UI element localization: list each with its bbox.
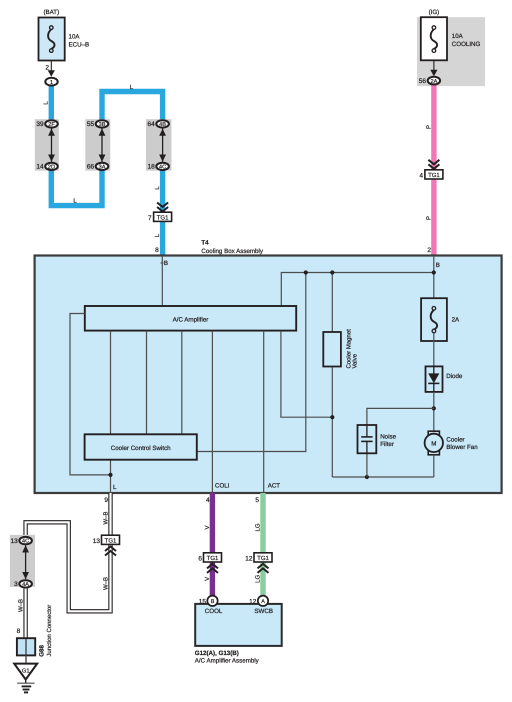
wire W-B 4A to G88 (inner white): [25, 589, 27, 641]
solenoid Cooler Magnet Valve: [323, 329, 358, 369]
connector 2A: [419, 77, 440, 86]
svg-text:A/C Amplifier Assembly: A/C Amplifier Assembly: [195, 658, 260, 665]
svg-text:14: 14: [36, 164, 44, 171]
svg-text:TG1: TG1: [207, 555, 219, 562]
svg-text:4: 4: [419, 173, 423, 180]
svg-text:66: 66: [87, 164, 95, 171]
box G12/G13 A/C Amplifier Assembly: [195, 604, 282, 646]
diode D1: [426, 366, 463, 392]
connector pair 2F/2D: [35, 119, 59, 170]
wire W-B pin 9 to connector 4C (inner white): [26, 493, 111, 611]
wire valve bottom vertical: [331, 367, 333, 477]
svg-text:LG: LG: [255, 574, 262, 582]
pin A connector: [249, 596, 268, 606]
svg-text:4C: 4C: [22, 539, 29, 545]
svg-text:B: B: [211, 599, 215, 605]
svg-text:1: 1: [50, 80, 53, 86]
wire V (violet) COLI to pin B: [210, 493, 215, 601]
wire W-B 4A to G88 (outer black): [23, 589, 27, 641]
wire B vertical to 2A fuse: [433, 256, 435, 307]
svg-text:2: 2: [427, 247, 431, 254]
wire amplifier to switch 3: [181, 331, 183, 435]
svg-text:39: 39: [36, 121, 44, 128]
svg-text:5: 5: [255, 497, 259, 504]
wire noise filter bottom branch: [366, 453, 368, 477]
connector pair 4B/4C: [146, 119, 171, 170]
wire amplifier to ACT pin: [263, 331, 265, 493]
svg-text:9: 9: [104, 497, 108, 504]
pin B connector: [199, 596, 218, 606]
wire switch to pin L: [110, 460, 112, 493]
connector 7 TG1: [148, 203, 172, 223]
node junction dot: [330, 415, 334, 419]
junction G88 box: [17, 638, 35, 663]
capacitor Noise Filter: [358, 425, 397, 453]
wire L (blue) 4C to T4 pin 8: [160, 165, 165, 256]
wire L (blue) 2D to 3A: [51, 165, 102, 205]
wire L (blue) from connector 1 to 2F: [49, 84, 54, 124]
svg-text:3A: 3A: [99, 165, 106, 171]
svg-text:SWCB: SWCB: [254, 608, 273, 615]
connector 13 TG1: [93, 535, 120, 555]
connector 6 TG1: [198, 553, 221, 573]
svg-text:A: A: [261, 599, 265, 605]
wire L (blue) 3B to 4B: [102, 92, 163, 125]
wire amplifier to switch 1: [110, 331, 112, 435]
connector pair 4C/4A: [10, 535, 35, 588]
svg-text:2A: 2A: [430, 79, 437, 85]
svg-text:8: 8: [17, 628, 21, 635]
fuse 10A ECU-B (BAT): [39, 9, 90, 61]
svg-text:6: 6: [198, 556, 202, 563]
svg-text:Cooling Box Assembly: Cooling Box Assembly: [201, 248, 263, 255]
wire amplifier left loop to pin L: [70, 314, 111, 475]
svg-text:8: 8: [155, 247, 159, 254]
connector 1: [45, 78, 57, 86]
svg-text:TG1: TG1: [105, 538, 117, 545]
ground G1: [14, 664, 37, 693]
node junction dot: [330, 270, 334, 274]
svg-text:Junction Connector: Junction Connector: [46, 605, 53, 657]
svg-text:55: 55: [87, 121, 95, 128]
svg-text:M: M: [431, 440, 436, 447]
fuse 10A COOLING (IG): [417, 9, 485, 86]
svg-text:12: 12: [249, 598, 257, 605]
svg-text:2F: 2F: [48, 122, 55, 128]
svg-text:Cooler: Cooler: [446, 436, 464, 443]
wire bottom horizontal: [332, 476, 434, 478]
svg-text:4A: 4A: [22, 582, 29, 588]
connector 4 TG1: [419, 160, 443, 180]
svg-text:LG: LG: [255, 523, 262, 531]
svg-text:Noise: Noise: [380, 433, 396, 440]
svg-text:18: 18: [147, 164, 155, 171]
switch Cooler Control Switch: [85, 434, 197, 459]
svg-text:2A: 2A: [452, 316, 460, 323]
op-amp A/C Amplifier box: [85, 306, 296, 331]
wire W-B pin 9 to connector 4C (outer black): [26, 493, 111, 611]
svg-text:56: 56: [419, 78, 427, 85]
svg-text:Diode: Diode: [446, 373, 463, 380]
connector pair 3B/3A: [85, 119, 110, 170]
svg-text:TG1: TG1: [157, 215, 169, 222]
wire to cooler magnet valve: [331, 273, 333, 332]
svg-text:Cooler Control Switch: Cooler Control Switch: [111, 445, 171, 452]
svg-text:L: L: [113, 484, 117, 491]
svg-text:V: V: [204, 525, 211, 529]
wire fuse to connector 1: [45, 61, 55, 77]
svg-text:COLI: COLI: [215, 483, 230, 490]
svg-text:G88: G88: [38, 645, 45, 657]
svg-text:Valve: Valve: [352, 353, 359, 368]
svg-text:ECU–B: ECU–B: [69, 41, 90, 48]
svg-text:+B: +B: [160, 260, 168, 267]
svg-text:(IG): (IG): [429, 9, 440, 16]
svg-text:TG1: TG1: [428, 172, 440, 179]
svg-text:2D: 2D: [48, 165, 55, 171]
svg-text:Filter: Filter: [380, 441, 394, 448]
svg-text:Cooler Magnet: Cooler Magnet: [345, 329, 352, 369]
svg-text:13: 13: [93, 538, 101, 545]
svg-text:4C: 4C: [159, 165, 166, 171]
svg-text:COOLING: COOLING: [452, 41, 481, 48]
wire LG (light green) ACT to pin A: [260, 493, 265, 601]
svg-text:ACT: ACT: [268, 483, 281, 490]
wire to cooler control switch: [197, 273, 306, 452]
svg-text:4B: 4B: [159, 122, 166, 128]
svg-text:W–B: W–B: [102, 511, 109, 524]
svg-text:(BAT): (BAT): [43, 9, 59, 16]
motor M Cooler Blower Fan: [425, 431, 479, 477]
svg-text:A/C Amplifier: A/C Amplifier: [173, 316, 209, 323]
svg-text:7: 7: [148, 215, 152, 222]
node junction dot: [304, 270, 308, 274]
wire amplifier to COLI pin: [211, 331, 213, 493]
svg-text:W–B: W–B: [102, 577, 109, 590]
fuse 2A internal: [421, 298, 460, 341]
svg-text:12: 12: [245, 556, 253, 563]
wire diode to motor: [433, 392, 435, 432]
node junction dot: [108, 473, 112, 477]
svg-text:10A: 10A: [69, 33, 81, 40]
svg-text:P: P: [425, 125, 432, 129]
wire amplifier to switch 2: [146, 331, 148, 435]
svg-text:Blower Fan: Blower Fan: [446, 444, 478, 451]
wire amplifier to valve bottom: [281, 331, 332, 418]
svg-text:64: 64: [147, 121, 155, 128]
svg-text:G12(A), G13(B): G12(A), G13(B): [195, 650, 239, 657]
svg-text:V: V: [204, 577, 211, 581]
wire top horizontal bus: [281, 273, 434, 307]
node junction dot: [365, 475, 369, 479]
svg-text:15: 15: [199, 598, 207, 605]
svg-text:W–B: W–B: [17, 599, 24, 612]
svg-text:3: 3: [14, 581, 18, 588]
wire 2A to diode: [433, 333, 435, 367]
node junction dot: [432, 270, 436, 274]
svg-text:G1: G1: [22, 668, 30, 675]
wire noise filter top branch: [367, 408, 434, 425]
T4 Cooling Box Assembly: [35, 240, 502, 493]
svg-text:COOL: COOL: [205, 608, 223, 615]
wire +B to A/C Amplifier: [161, 256, 163, 306]
connector 12 TG1: [245, 553, 272, 573]
node junction dot: [432, 406, 436, 410]
svg-text:P: P: [425, 216, 432, 220]
svg-text:13: 13: [10, 538, 18, 545]
svg-text:10A: 10A: [452, 33, 464, 40]
wire P (pink) 2A to T4 pin 2: [431, 83, 436, 256]
svg-text:B: B: [436, 262, 440, 269]
svg-text:4: 4: [206, 497, 210, 504]
svg-text:T4: T4: [201, 240, 209, 247]
svg-text:3B: 3B: [99, 122, 106, 128]
svg-text:TG1: TG1: [257, 555, 269, 562]
